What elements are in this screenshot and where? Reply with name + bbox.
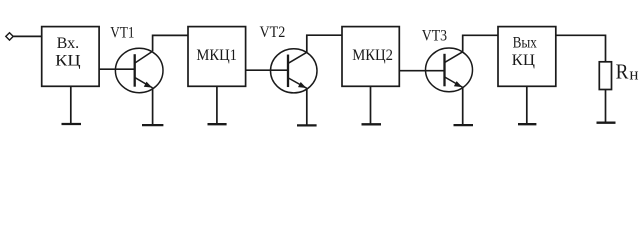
transistor VT3 [426,48,473,92]
wire Вх.КЦ to VT1 base [99,68,135,70]
wire VT3 emitter to ground [462,87,464,125]
ground under МКЦ2 [362,123,382,125]
block МКЦ2 [342,27,399,87]
svg-text:МКЦ1: МКЦ1 [196,47,237,64]
wire Вх.КЦ bottom to ground [70,86,72,124]
wire VT2 collector to МКЦ2 [307,35,342,52]
svg-text:VT3: VT3 [422,28,447,45]
svg-text:КЦ: КЦ [512,52,536,69]
wire VT2 emitter to ground [306,88,308,125]
svg-text:КЦ: КЦ [55,53,81,70]
wire VT1 emitter to ground [152,88,154,125]
wire Вых КЦ to resistor Rн [556,35,606,62]
transistor VT1 [115,48,163,93]
svg-text:н: н [629,65,638,84]
ground under VT1 [142,124,163,126]
wire resistor Rн to ground [605,90,607,123]
wire МКЦ2 bottom to ground [370,86,372,124]
ground under VT2 [297,124,317,126]
ground under Rн [597,122,616,124]
block Вых КЦ [498,27,556,87]
wire VT1 collector to МКЦ1 [153,35,188,51]
block Вх.КЦ [42,27,99,87]
wire МКЦ1 to VT2 base [246,69,288,71]
svg-text:VT2: VT2 [260,24,286,41]
resistor Rн [599,62,611,90]
svg-text:Вых: Вых [513,34,538,51]
svg-text:R: R [616,59,629,83]
block МКЦ1 [188,27,246,87]
transistor VT2 [271,49,318,93]
svg-text:VT1: VT1 [110,24,134,41]
ground under Вых КЦ [518,123,536,125]
wire input terminal to Вх.КЦ [13,35,42,37]
input terminal [6,33,13,40]
wire VT3 collector to Вых КЦ [463,35,498,52]
svg-text:МКЦ2: МКЦ2 [352,47,393,64]
ground under VT3 [454,124,474,126]
svg-text:Вх.: Вх. [57,35,80,52]
ground under Вх.КЦ [62,123,82,125]
wire Вых КЦ bottom to ground [526,86,528,124]
ground under МКЦ1 [208,123,227,125]
wire МКЦ1 bottom to ground [216,86,218,124]
wire МКЦ2 to VT3 base [399,70,444,72]
